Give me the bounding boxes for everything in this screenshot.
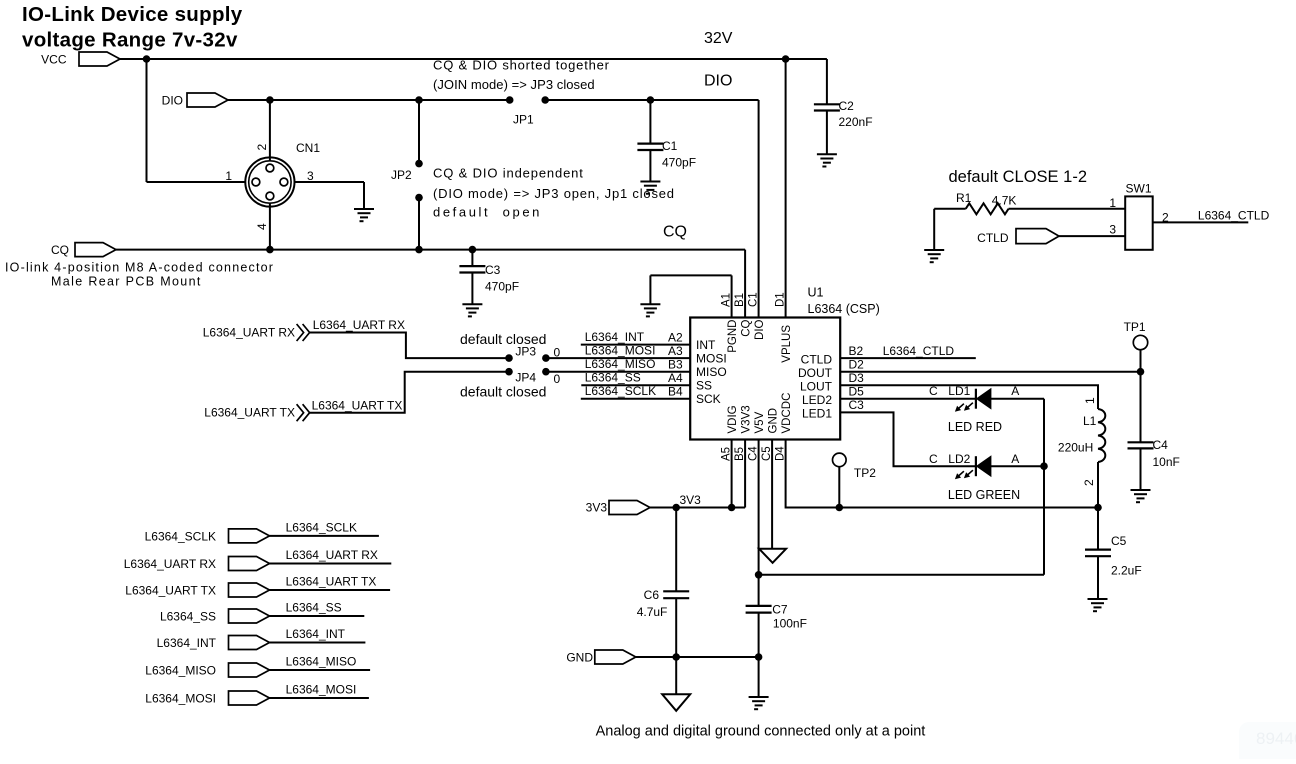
pin label C5 [761,446,773,461]
pin label 2 [1162,211,1169,225]
svg-text:SCK: SCK [696,392,721,406]
jumper JP2 [391,100,423,250]
svg-text:L6364_UART TX: L6364_UART TX [204,406,295,420]
wire L6364_INT stub [269,642,365,644]
svg-text:C1: C1 [662,139,678,153]
pin label C3 [849,398,865,412]
pin name LED2 [802,393,832,407]
svg-text:LED GREEN: LED GREEN [948,488,1020,502]
svg-text:L1: L1 [1083,414,1097,428]
wire L6364_SCLK stub [269,535,379,537]
pin label D1 [775,292,787,307]
wire CQ row [116,249,745,251]
svg-text:L6364_UART RX: L6364_UART RX [124,557,216,571]
svg-text:LED2: LED2 [802,393,832,407]
svg-text:L6364_INT: L6364_INT [286,627,346,641]
node TP2 junction [836,504,844,512]
wire LED return row [759,574,1044,576]
svg-text:CTLD: CTLD [801,353,833,367]
svg-text:PGND: PGND [727,320,739,353]
svg-text:L6364_MOSI: L6364_MOSI [286,683,357,697]
wire L6364_SS stub [269,615,364,617]
svg-text:Male Rear PCB Mount: Male Rear PCB Mount [51,275,202,289]
svg-text:(DIO mode) => JP3 open, Jp1 cl: (DIO mode) => JP3 open, Jp1 closed [433,186,675,201]
pin name MISO [696,365,727,379]
svg-text:LD2: LD2 [948,452,970,466]
wire C7 to ground [758,657,760,697]
wire VCC down to CN1 pin1 [147,59,246,182]
svg-text:3V3: 3V3 [680,493,702,507]
LED LD1 [929,384,1019,412]
wire DOUT row [840,371,1140,373]
net label DIO [704,73,732,90]
connector GND [566,650,635,665]
svg-text:L6364_MISO: L6364_MISO [286,655,357,669]
svg-text:1: 1 [1083,397,1097,404]
node VDIG junction [728,504,736,512]
connector L6364_SCLK [145,529,270,544]
connector DIO [162,93,228,108]
svg-text:100nF: 100nF [773,617,807,631]
pin name V3V3 [741,405,753,433]
svg-text:Analog and digital ground conn: Analog and digital ground connected only… [596,724,926,740]
ground C2 [817,154,837,166]
svg-text:TP1: TP1 [1124,320,1146,334]
wire SCLK stub [581,398,690,400]
svg-text:470pF: 470pF [485,280,519,294]
wire L6364_MISO stub [269,669,370,671]
wire LD1 anode [991,399,1044,575]
inductor L1 [1058,397,1105,486]
svg-text:CN1: CN1 [296,141,320,155]
text IO-link connector note [5,261,274,289]
ground C3 [462,304,482,316]
svg-text:1: 1 [225,169,232,183]
svg-text:B1: B1 [734,293,746,307]
svg-text:C2: C2 [839,99,855,113]
pin label C1 [748,292,760,307]
svg-text:0: 0 [554,346,561,360]
svg-text:L6364_SCLK: L6364_SCLK [286,521,357,535]
connector L6364_UART TX out [204,404,309,421]
svg-text:DIO: DIO [704,73,732,90]
LED LD2 [929,452,1019,479]
node C1 junction [647,96,655,104]
svg-text:GND: GND [768,408,780,434]
svg-text:L6364_CTLD: L6364_CTLD [883,344,955,358]
svg-text:JP1: JP1 [513,113,534,127]
wire 3V3 rail [650,440,745,508]
node C6 gnd junction [672,653,680,661]
svg-text:B4: B4 [668,385,683,399]
svg-text:L6364_UART TX: L6364_UART TX [125,584,216,598]
wire LOUT row [840,385,1098,409]
svg-text:IO-Link Device supply: IO-Link Device supply [22,3,243,26]
svg-text:2: 2 [255,144,269,151]
svg-text:LD1: LD1 [948,384,970,398]
ground C7 [749,697,769,709]
net label L6364_UART RX [286,548,378,562]
pin name PGND [727,320,739,353]
net label L6364_MISO B3 [585,357,683,372]
wire CTLD to SW1 pin3 [1059,235,1125,237]
wire 32V to C2 [826,59,828,104]
svg-text:D1: D1 [775,292,787,307]
svg-text:LED RED: LED RED [948,420,1002,434]
connector L6364_MOSI [145,691,269,706]
svg-text:A1: A1 [721,293,733,307]
node LED anode junction [1040,462,1048,470]
svg-text:V3V3: V3V3 [741,405,753,433]
connector L6364_UART TX [125,583,269,598]
svg-text:V5V: V5V [754,411,766,433]
wire CN1 pin2 up [269,100,271,162]
svg-text:C: C [929,452,938,466]
svg-text:4.7K: 4.7K [992,194,1017,208]
pin label 4 [255,223,269,230]
pin name VPLUS [781,325,793,363]
text default closed top [460,331,546,347]
resistor 0 ohm JP4 [554,372,561,386]
connector VCC [41,52,120,67]
capacitor C5 [1085,508,1142,600]
node DOUT junction [1137,368,1145,376]
svg-text:default closed: default closed [460,331,546,347]
svg-text:220uH: 220uH [1058,441,1093,455]
net label L6364_UART TX [312,399,403,413]
capacitor C6 [637,508,690,658]
ground C4 [1131,490,1151,502]
test point TP2 [833,453,877,480]
connector CQ [51,243,116,257]
wire V5V down [758,440,760,575]
svg-text:10nF: 10nF [1153,455,1180,469]
net label L6364_UART TX [286,575,377,589]
svg-text:CQ: CQ [51,243,69,257]
connector CTLD [977,229,1059,245]
svg-text:default open: default open [433,205,542,220]
svg-text:IO-link 4-position M8 A-coded: IO-link 4-position M8 A-coded connector [5,261,274,275]
net label 3V3 [680,493,702,507]
net label L6364_SS A4 [585,371,683,386]
svg-text:TP2: TP2 [854,466,876,480]
svg-text:SW1: SW1 [1126,182,1152,196]
wire CN1 pin4 down [269,203,271,250]
wire INT stub [581,344,690,346]
svg-text:GND: GND [566,651,593,665]
node JP2 bottom junction [415,246,423,254]
ground PGND [640,304,660,316]
svg-text:A3: A3 [668,344,683,358]
resistor 0 ohm JP3 [554,346,561,360]
ground C5 [1088,599,1108,611]
net label L6364_CTLD [883,344,955,358]
connector L6364_UART RX [124,557,270,572]
wire L6364_UART RX stub [269,563,391,565]
pin label 1 [1109,196,1116,210]
wire C6 to power ground [675,657,677,694]
svg-text:L6364_SCLK: L6364_SCLK [585,384,656,398]
ground R1 [924,250,944,262]
svg-text:470pF: 470pF [662,156,696,170]
svg-text:C1: C1 [748,292,760,307]
pin label D4 [775,446,787,461]
svg-text:4.7uF: 4.7uF [637,605,668,619]
svg-text:L6364_SCLK: L6364_SCLK [145,529,216,543]
pin label 3 [1109,223,1116,237]
wire CTLD stub [840,357,976,359]
pin name VDCDC [781,393,793,434]
net label L6364_INT [286,627,346,641]
capacitor C4 [1128,372,1180,490]
svg-text:1: 1 [1109,196,1116,210]
text DIO mode note [433,166,675,220]
text ground note [596,724,926,740]
svg-text:DOUT: DOUT [798,366,833,380]
svg-text:C3: C3 [849,398,865,412]
svg-text:CTLD: CTLD [977,231,1009,245]
net label L6364_MOSI [286,683,357,697]
node C7 gnd junction [755,653,763,661]
power ground chip [759,549,786,563]
svg-text:CQ & DIO shorted together: CQ & DIO shorted together [433,58,610,73]
svg-text:MOSI: MOSI [696,352,727,366]
jumper JP1 [506,96,549,127]
svg-text:L6364_MISO: L6364_MISO [145,664,216,678]
svg-text:B3: B3 [668,358,683,372]
svg-text:A4: A4 [668,371,683,385]
svg-text:L6364_CTLD: L6364_CTLD [1198,209,1270,223]
svg-text:JP4: JP4 [515,371,536,385]
pin name CQ [741,319,753,336]
text LED GREEN [948,488,1020,502]
wire MISO segment [546,371,690,373]
node C6 junction [672,504,680,512]
text default closed bottom [460,384,546,400]
svg-text:D5: D5 [849,385,865,399]
capacitor C7 [746,575,807,657]
net label L6364_MOSI A3 [585,344,683,359]
pin name SS [696,379,712,393]
svg-text:L6364_UART TX: L6364_UART TX [286,575,377,589]
svg-text:L6364_MOSI: L6364_MOSI [585,344,656,358]
ground CN1 pin3 [354,209,374,221]
pin name CTLD [801,353,833,367]
wire GND pin down [771,440,773,549]
wire GND row [636,656,759,658]
pin label 3 [307,169,314,183]
test point TP1 [1124,320,1148,350]
svg-text:220nF: 220nF [839,115,873,129]
svg-text:C6: C6 [644,588,660,602]
pin name INT [696,338,716,352]
svg-text:DIO: DIO [754,319,766,340]
pin label 1 [225,169,232,183]
wire LED2 row [840,398,976,400]
wire L6364_MOSI stub [269,697,369,699]
svg-text:C7: C7 [772,603,788,617]
svg-text:C: C [929,384,938,398]
wire CN1 pin3 to ground [295,182,365,209]
svg-text:MISO: MISO [696,365,727,379]
svg-text:L6364_INT: L6364_INT [157,636,217,650]
svg-text:D3: D3 [849,371,865,385]
svg-text:D2: D2 [849,358,865,372]
svg-text:3: 3 [1109,223,1116,237]
switch SW1 [1125,182,1153,250]
capacitor C3 [459,250,519,305]
svg-text:L6364_UART RX: L6364_UART RX [286,548,378,562]
connector L6364_UART RX out [203,324,310,341]
svg-text:C5: C5 [1111,534,1127,548]
svg-text:INT: INT [696,338,716,352]
wire VDCDC row [786,440,1098,508]
wire L1 bottom [1097,462,1099,508]
pin label D5 [849,385,865,399]
wire CQ to pin B1 [744,250,746,318]
svg-text:L6364_UART RX: L6364_UART RX [313,318,405,332]
svg-text:A2: A2 [668,331,683,345]
pin label B5 [734,447,746,461]
pin label B1 [734,293,746,307]
svg-text:B2: B2 [849,344,864,358]
pin name GND [768,408,780,434]
svg-text:L6364_SS: L6364_SS [585,371,641,385]
svg-text:R1: R1 [956,191,972,205]
text default CLOSE 1-2 [949,168,1088,186]
watermark box bottom-right [1239,722,1296,764]
wire VPLUS to pin D1 [785,59,787,318]
pin name V5V [754,411,766,433]
svg-text:0: 0 [554,372,561,386]
pin name LOUT [800,380,833,394]
net label L6364_UART RX [313,318,405,332]
svg-text:(JOIN mode) => JP3 closed: (JOIN mode) => JP3 closed [433,77,595,92]
wire VCC 32V rail [120,58,827,60]
connector L6364_INT [157,636,270,651]
node L1 VDCDC junction [1094,504,1102,512]
resistor R1 [934,191,1125,214]
net label L6364_MISO [286,655,357,669]
wire R1 to ground [933,209,935,250]
pin label C4 [748,446,760,461]
pin name LED1 [802,407,832,421]
svg-text:DIO: DIO [162,94,183,108]
svg-text:JP2: JP2 [391,168,412,182]
svg-text:3V3: 3V3 [586,501,608,515]
pin name MOSI [696,352,727,366]
net label L6364_SCLK B4 [585,384,683,399]
power ground analog [662,694,690,711]
node V5V junction [755,571,763,579]
pin name VDIG [727,405,739,433]
wire L6364_UART TX stub [269,589,390,591]
net label 32V [704,30,733,47]
net label L6364_SCLK [286,521,357,535]
pin name DIO [754,319,766,340]
jumper JP4 [505,368,550,385]
pin label A1 [721,293,733,307]
wire UART RX [310,333,509,359]
svg-text:VDIG: VDIG [727,405,739,433]
connector 3V3 [586,501,650,515]
svg-text:LOUT: LOUT [800,380,833,394]
wire DIO after JP1 [545,100,758,318]
wire DIO to JP1 [228,99,510,101]
pin name DOUT [798,366,833,380]
svg-text:C3: C3 [485,263,501,277]
wire TP2 down [838,467,840,508]
connector CN1 M8 circular [245,141,320,207]
svg-text:CQ & DIO independent: CQ & DIO independent [433,166,584,181]
svg-text:4: 4 [255,223,269,230]
net label L6364_INT A2 [585,330,683,345]
svg-text:U1: U1 [808,286,824,300]
svg-text:VDCDC: VDCDC [781,393,793,434]
title text [22,3,243,52]
svg-text:default CLOSE 1-2: default CLOSE 1-2 [949,168,1088,186]
wire MOSI segment [546,357,690,359]
ground C1 [640,182,660,194]
svg-text:2.2uF: 2.2uF [1111,564,1142,578]
svg-text:LED1: LED1 [802,407,832,421]
node CQ CN1 junction [266,246,274,254]
svg-text:32V: 32V [704,30,733,47]
svg-text:VCC: VCC [41,53,67,67]
svg-text:L6364_UART RX: L6364_UART RX [203,326,295,340]
wire SW1 pin2 net [1153,209,1270,223]
node VPLUS junction [782,55,790,63]
node C3 junction [469,246,477,254]
svg-text:A: A [1011,452,1019,466]
svg-text:VPLUS: VPLUS [781,325,793,363]
svg-text:CQ: CQ [663,224,687,241]
capacitor C2 [814,99,873,154]
wire PGND net [650,275,731,317]
svg-text:L6364_INT: L6364_INT [585,330,645,344]
svg-text:L6364 (CSP): L6364 (CSP) [808,302,880,316]
wire LED1 row [840,412,976,466]
text LED RED [948,420,1002,434]
svg-text:894460: 894460 [1256,729,1296,748]
svg-text:2: 2 [1082,479,1096,486]
svg-text:CQ: CQ [741,319,753,336]
pin label A5 [721,447,733,461]
wire LD2 anode [991,465,1044,467]
op-amp U1 L6364 chip body [690,286,880,440]
text JOIN mode note [433,58,610,93]
capacitor C1 [637,100,696,182]
svg-text:A: A [1011,384,1019,398]
pin label 2 [255,144,269,151]
node DIO CN1 junction [266,96,274,104]
wire SS stub [581,384,690,386]
svg-text:L6364_MOSI: L6364_MOSI [145,692,216,706]
svg-text:L6364_SS: L6364_SS [286,601,342,615]
svg-text:L6364_SS: L6364_SS [160,610,216,624]
pin label D2 [849,358,865,372]
svg-text:voltage Range 7v-32v: voltage Range 7v-32v [22,28,238,51]
pin name SCK [696,392,721,406]
svg-text:SS: SS [696,379,712,393]
wire UART TX [310,372,509,413]
svg-text:L6364_UART TX: L6364_UART TX [312,399,403,413]
jumper JP3 [505,345,550,362]
svg-text:3: 3 [307,169,314,183]
pin label D3 [849,371,865,385]
connector L6364_SS [160,609,270,624]
node JP2 top junction [415,96,423,104]
